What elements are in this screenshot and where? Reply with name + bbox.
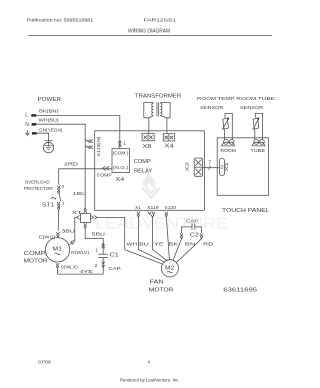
svg-text:CAP.: CAP.	[186, 218, 199, 224]
L feed arrow into K4	[118, 140, 121, 146]
svg-text:L: L	[124, 141, 127, 147]
wire RD to fan	[200, 233, 203, 238]
transformer secondary winding	[160, 103, 170, 134]
switch blade	[59, 193, 61, 201]
wire WH to fan	[125, 250, 164, 265]
svg-text:C2: C2	[190, 233, 199, 239]
wire GN to earth	[37, 133, 49, 142]
svg-text:4: 4	[148, 360, 151, 366]
tube sensor thermistor loop	[253, 113, 263, 139]
svg-text:XT: XT	[72, 210, 82, 216]
svg-text:SENSOR: SENSOR	[240, 105, 264, 111]
svg-text:FAN: FAN	[150, 279, 164, 285]
svg-text:Publication No: 5995518981: Publication No: 5995518981	[27, 18, 94, 24]
connector X4	[163, 134, 175, 141]
XT bottom arrow and 5BU wire to C1	[84, 223, 87, 228]
wire K4 NO to overload (2RD/COMP)	[59, 169, 112, 185]
svg-text:COMP: COMP	[97, 173, 112, 179]
svg-text:C1: C1	[110, 253, 119, 259]
svg-text:BK(BN): BK(BN)	[39, 108, 59, 113]
XT right arrow and wire to WH drop	[91, 215, 97, 219]
svg-text:PROTECTOR: PROTECTOR	[24, 186, 54, 192]
switch ST1 contact top	[58, 191, 60, 193]
watermark chevron mark	[142, 188, 159, 198]
main control board outline	[95, 131, 205, 211]
watermark logo flame	[143, 174, 156, 189]
svg-text:N: N	[25, 122, 29, 128]
connector X2 on board edge	[194, 158, 202, 176]
XT top arrow from N wire	[84, 208, 87, 213]
svg-text:(COM.): (COM.)	[113, 150, 129, 155]
capacitor C1 top lead with arrow	[102, 238, 104, 254]
transformer core	[156, 102, 158, 116]
relay K4 box	[112, 149, 130, 173]
connector X1 on touch panel	[220, 159, 225, 176]
svg-text:ROOM: ROOM	[221, 148, 236, 153]
overload pin 3 arrow	[57, 186, 60, 191]
XT left arrow and wire to R terminal	[77, 215, 80, 219]
svg-text:S(WLX): S(WLX)	[61, 265, 79, 270]
svg-text:GN(YEGN): GN(YEGN)	[39, 128, 63, 133]
wire BN to fan	[180, 233, 183, 238]
svg-text:WIRING DIAGRAM: WIRING DIAGRAM	[128, 29, 170, 35]
svg-text:L: L	[25, 113, 28, 119]
svg-text:X4: X4	[164, 144, 174, 150]
svg-text:X1: X1	[135, 205, 141, 210]
svg-text:63611695: 63611695	[223, 288, 257, 294]
svg-text:COMP.: COMP.	[24, 251, 47, 257]
svg-text:OVERLOAD: OVERLOAD	[25, 180, 50, 186]
switch pin 1 arrow	[57, 202, 60, 207]
svg-text:TRANSFORMER: TRANSFORMER	[135, 93, 182, 99]
touch panel box	[217, 138, 268, 196]
svg-text:YE: YE	[154, 242, 164, 248]
svg-text:BK: BK	[168, 242, 179, 248]
svg-text:X118(N): X118(N)	[96, 136, 101, 157]
svg-text:WH(BU): WH(BU)	[39, 117, 60, 122]
N terminal block	[32, 123, 37, 125]
svg-text:M1: M1	[53, 247, 63, 253]
transformer primary winding	[144, 103, 154, 134]
svg-text:1: 1	[95, 248, 98, 254]
PE earth glyph at service entry	[25, 130, 30, 135]
C terminal arrow	[57, 232, 60, 237]
svg-text:5BU: 5BU	[92, 232, 106, 238]
svg-text:3BU: 3BU	[62, 228, 76, 234]
svg-text:X2: X2	[185, 161, 190, 171]
svg-text:TOUCH PANEL: TOUCH PANEL	[222, 208, 270, 214]
svg-text:7: 7	[208, 161, 211, 167]
connector arrows under X119	[148, 212, 155, 218]
svg-text:X8: X8	[142, 144, 151, 150]
svg-text:M2: M2	[165, 265, 174, 271]
cable count tick	[209, 166, 211, 170]
connector X8	[142, 133, 154, 141]
svg-text:ROOM TEMP.: ROOM TEMP.	[197, 96, 235, 102]
wire BU to fan	[138, 217, 165, 262]
switch contact bottom	[58, 207, 60, 209]
GN terminal block	[32, 132, 37, 134]
svg-text:CAP.: CAP.	[108, 266, 121, 272]
room temp sensor thermistor loop	[222, 113, 232, 139]
svg-text:MOTOR: MOTOR	[149, 287, 174, 293]
svg-text:SENSOR: SENSOR	[200, 105, 224, 111]
tube connector on panel	[252, 140, 265, 146]
svg-text:MOTOR: MOTOR	[24, 259, 48, 265]
svg-text:COMP.: COMP.	[134, 159, 152, 165]
svg-text:POWER: POWER	[38, 97, 62, 103]
connector arrow under X120	[165, 212, 168, 217]
wire BK to fan	[166, 217, 169, 260]
earth bar above circle	[45, 140, 53, 142]
svg-text:X119: X119	[147, 205, 159, 210]
header publication text	[27, 18, 177, 35]
svg-text:Rendered by LeadVenture, Inc.: Rendered by LeadVenture, Inc.	[120, 378, 180, 384]
room connector on panel	[222, 140, 235, 146]
L terminal block	[31, 114, 36, 116]
svg-text:2: 2	[95, 263, 98, 269]
svg-text:R(WLV): R(WLV)	[71, 250, 90, 255]
svg-text:RD: RD	[203, 242, 214, 248]
svg-text:2RD: 2RD	[64, 162, 79, 168]
svg-text:X120: X120	[165, 205, 177, 210]
svg-text:ROOM TUBE.: ROOM TUBE.	[236, 96, 276, 102]
wire 7-conductor to touch panel	[203, 167, 220, 169]
svg-text:BU: BU	[139, 242, 149, 248]
wire N line down to XT	[36, 124, 85, 208]
wire L line to K4	[36, 115, 120, 148]
svg-text:K4: K4	[116, 177, 124, 183]
switch spring tilde	[51, 197, 56, 199]
wire ST1 to compressor C	[57, 209, 60, 231]
svg-text:WH: WH	[127, 242, 138, 248]
svg-text:LEADVENTURE: LEADVENTURE	[95, 216, 228, 233]
capacitor C1 bottom lead with arrow	[58, 258, 104, 275]
chevron on COMP wire	[103, 166, 110, 170]
svg-text:07/08: 07/08	[38, 360, 51, 366]
connector XT box	[81, 214, 91, 223]
svg-text:FAR12SS1: FAR12SS1	[144, 18, 177, 24]
svg-text:BN: BN	[185, 242, 196, 248]
compressor motor M1	[45, 238, 69, 262]
connector X118(N) chevrons	[85, 140, 93, 149]
wire YE to fan	[153, 218, 168, 262]
svg-text:(N.O.): (N.O.)	[113, 165, 128, 170]
fan motor M2	[161, 260, 178, 277]
svg-text:RELAY: RELAY	[134, 169, 153, 175]
S terminal arrow of compressor	[56, 263, 59, 268]
capacitor C2 plates	[191, 223, 193, 229]
capacitor C1 plates	[98, 253, 108, 255]
svg-text:TUBE: TUBE	[250, 148, 265, 153]
svg-text:4YE: 4YE	[80, 269, 94, 275]
svg-text:ST1: ST1	[42, 203, 54, 209]
earth ground circle	[43, 142, 53, 152]
connector arrow under X1	[137, 212, 140, 217]
svg-text:X1: X1	[224, 161, 229, 171]
svg-text:1BU: 1BU	[73, 191, 87, 197]
watermark text	[95, 216, 228, 233]
capacitor C2 leads	[182, 227, 193, 233]
header rule	[28, 35, 272, 37]
